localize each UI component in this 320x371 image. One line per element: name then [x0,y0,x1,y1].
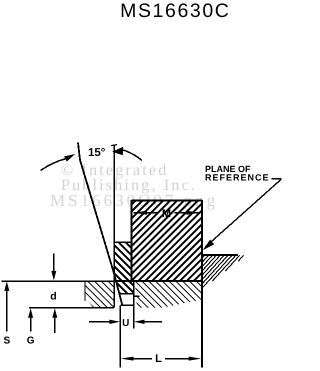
U left extension / L left extension [119,305,121,367]
right surface line (plane of reference) [202,254,238,256]
right vertical edge and L extension [201,200,203,368]
U right extension [133,294,135,329]
leader line [206,179,282,247]
tick at top of reference line [111,145,117,146]
column lower right edge [133,281,135,294]
groove bottom line [113,280,202,282]
dimension G arrow [28,308,33,318]
left surface line [2,280,115,282]
svg-text:15°: 15° [88,147,106,159]
step line in shaft [134,295,140,297]
svg-text:S: S [3,336,10,347]
leader dash [271,178,281,180]
dimension U right arrow [134,320,145,324]
leader arrowhead [203,240,214,251]
dimension L [121,357,134,361]
left shaft block [85,281,114,307]
ring section block M [132,200,202,281]
bevel slant line 15 deg [78,143,122,306]
dimension S arrow [4,281,9,291]
column top edge [114,241,131,243]
svg-text:L: L [155,353,162,365]
dimension d down arrow [53,254,55,274]
svg-text:REFERENCE: REFERENCE [205,173,270,183]
dimension d up arrow [52,308,57,318]
slot bottom line [120,304,133,306]
surface shading patch [202,255,243,288]
column bottom edge [119,293,134,295]
beveled ring edge column [114,242,133,293]
svg-text:MS16630C: MS16630C [120,0,230,22]
dimension M [134,212,159,214]
G extension line [29,307,114,309]
svg-text:M: M [162,208,171,220]
vertical reference line [113,145,115,307]
shaft material below groove [135,281,202,308]
svg-text:G: G [27,336,35,347]
dimension U left arrow [89,321,112,323]
right curved arrow [123,150,142,161]
svg-text:d: d [50,291,56,303]
svg-text:U: U [122,318,129,329]
left curved arrow [41,159,66,171]
